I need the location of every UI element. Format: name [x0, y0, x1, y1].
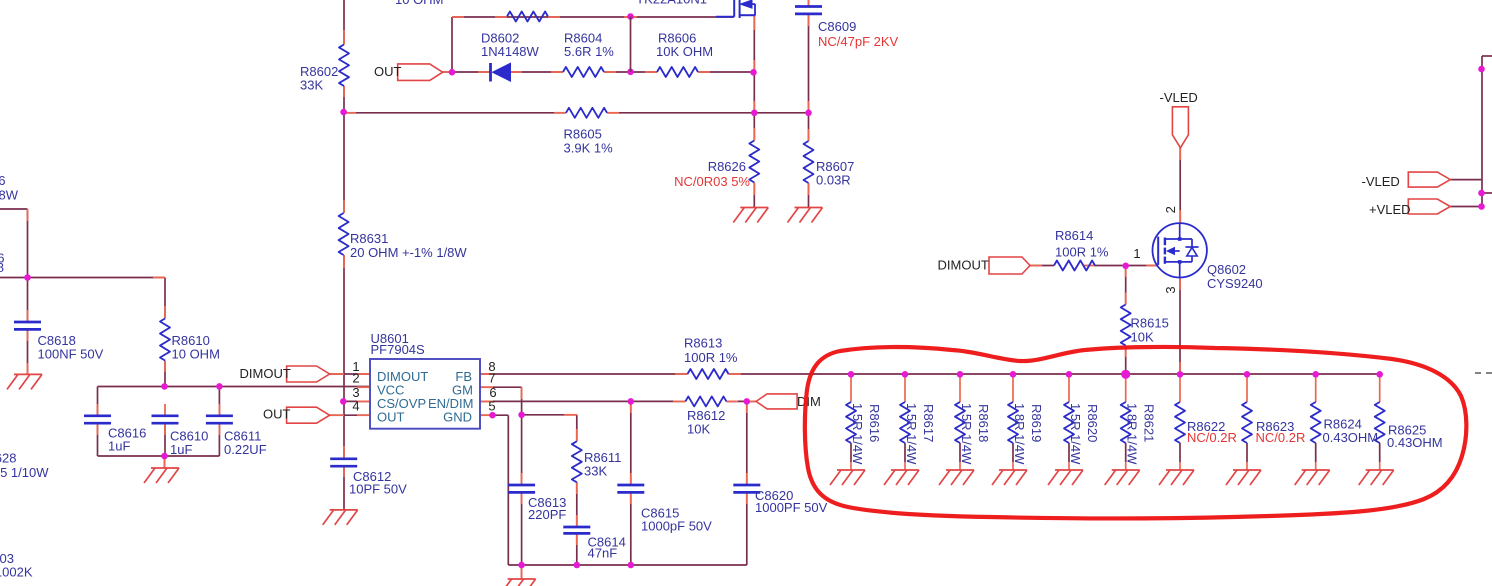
- svg-text:DIMOUT: DIMOUT: [938, 257, 989, 272]
- svg-text:0.43OHM: 0.43OHM: [1387, 435, 1443, 450]
- svg-text:47nF: 47nF: [588, 545, 618, 560]
- svg-text:R8631: R8631: [350, 231, 388, 246]
- svg-text:0.43OHM: 0.43OHM: [1323, 430, 1379, 445]
- svg-text:R8605: R8605: [564, 126, 602, 141]
- svg-text:NC/0.2R: NC/0.2R: [1256, 430, 1306, 445]
- svg-text:DIM: DIM: [797, 394, 821, 409]
- svg-text:33K: 33K: [300, 77, 323, 92]
- svg-text:10K OHM: 10K OHM: [656, 44, 713, 59]
- svg-text:1.5R 1/4W: 1.5R 1/4W: [1068, 403, 1083, 465]
- svg-text:2: 2: [352, 370, 359, 385]
- svg-text:+VLED: +VLED: [1369, 202, 1411, 217]
- svg-text:C8609: C8609: [818, 19, 856, 34]
- svg-text:1uF: 1uF: [108, 438, 130, 453]
- svg-text:R8620: R8620: [1085, 404, 1100, 442]
- svg-text:NC/0.2R: NC/0.2R: [1187, 430, 1237, 445]
- svg-text:1: 1: [1133, 246, 1140, 261]
- svg-text:4: 4: [352, 398, 359, 413]
- svg-text:DIMOUT: DIMOUT: [240, 366, 291, 381]
- svg-text:1.8R 1/4W: 1.8R 1/4W: [1012, 403, 1027, 465]
- svg-text:1002K: 1002K: [0, 564, 33, 579]
- svg-text:220PF: 220PF: [528, 507, 566, 522]
- svg-text:R8619: R8619: [1029, 404, 1044, 442]
- svg-text:Q8602: Q8602: [1207, 262, 1246, 277]
- svg-text:R8626: R8626: [708, 159, 746, 174]
- svg-text:R8615: R8615: [1131, 315, 1169, 330]
- svg-text:3: 3: [1163, 286, 1178, 293]
- svg-text:R8614: R8614: [1055, 228, 1093, 243]
- svg-text:OUT: OUT: [374, 64, 402, 79]
- svg-text:100NF 50V: 100NF 50V: [38, 346, 104, 361]
- svg-text:33K: 33K: [584, 463, 607, 478]
- svg-text:GND: GND: [443, 409, 472, 424]
- svg-text:5: 5: [488, 398, 495, 413]
- svg-text:0.03R: 0.03R: [816, 172, 851, 187]
- svg-text:1.5R 1/4W: 1.5R 1/4W: [904, 403, 919, 465]
- svg-text:7: 7: [488, 370, 495, 385]
- svg-text:R005 1/10W: R005 1/10W: [0, 465, 49, 480]
- svg-text:-VLED: -VLED: [1160, 90, 1198, 105]
- svg-text:R8628: R8628: [0, 450, 17, 465]
- svg-text:10K: 10K: [1131, 329, 1154, 344]
- svg-text:10 OHM: 10 OHM: [172, 346, 220, 361]
- svg-text:0.22UF: 0.22UF: [224, 442, 267, 457]
- svg-text:R8613: R8613: [684, 335, 722, 350]
- svg-text:R8618: R8618: [976, 404, 991, 442]
- svg-text:1.5R 1/4W: 1.5R 1/4W: [850, 403, 865, 465]
- svg-text:CYS9240: CYS9240: [1207, 276, 1263, 291]
- svg-text:-VLED: -VLED: [1362, 174, 1400, 189]
- svg-text:1.8R 1/4W: 1.8R 1/4W: [1125, 403, 1140, 465]
- svg-text:TK22A10N1: TK22A10N1: [636, 0, 707, 7]
- svg-text:1000PF 50V: 1000PF 50V: [755, 500, 828, 515]
- svg-text:8: 8: [0, 260, 4, 275]
- svg-text:R8636: R8636: [0, 173, 6, 188]
- svg-text:5.6R 1%: 5.6R 1%: [564, 44, 614, 59]
- svg-text:100R 1%: 100R 1%: [684, 350, 738, 365]
- svg-text:10 OHM: 10 OHM: [395, 0, 443, 7]
- svg-text:OUT: OUT: [377, 409, 405, 424]
- svg-text:R8617: R8617: [921, 404, 936, 442]
- svg-text:R8621: R8621: [1142, 404, 1157, 442]
- svg-text:3.9K 1%: 3.9K 1%: [564, 140, 614, 155]
- svg-text:1uF: 1uF: [170, 442, 192, 457]
- svg-text:1000pF 50V: 1000pF 50V: [641, 518, 712, 533]
- svg-text:1% 1/8W: 1% 1/8W: [0, 187, 19, 202]
- svg-text:100R 1%: 100R 1%: [1055, 244, 1109, 259]
- svg-text:OUT: OUT: [263, 406, 291, 421]
- svg-text:10K: 10K: [687, 421, 710, 436]
- svg-text:R8616: R8616: [867, 404, 882, 442]
- svg-text:10PF 50V: 10PF 50V: [349, 481, 407, 496]
- svg-text:20 OHM +-1% 1/8W: 20 OHM +-1% 1/8W: [350, 245, 467, 260]
- svg-text:1.5R 1/4W: 1.5R 1/4W: [959, 403, 974, 465]
- svg-text:NC/47pF 2KV: NC/47pF 2KV: [818, 34, 899, 49]
- svg-text:NC/0R03 5%: NC/0R03 5%: [674, 174, 750, 189]
- svg-text:2: 2: [1163, 206, 1178, 213]
- svg-text:1N4148W: 1N4148W: [481, 44, 540, 59]
- svg-text:PF7904S: PF7904S: [371, 342, 426, 357]
